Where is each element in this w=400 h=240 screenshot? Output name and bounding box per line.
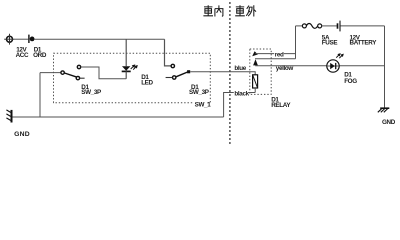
svg-text:RELAY: RELAY (271, 102, 291, 109)
switch S1a (part of D1 SW_3P) (61, 65, 85, 80)
label black (234, 91, 250, 98)
svg-text:SW_3P: SW_3P (81, 89, 101, 96)
label D1 RELAY (271, 97, 291, 110)
label 12V BATTERY (350, 34, 378, 46)
label 車内 (hand-drawn kanji) (203, 5, 223, 16)
svg-text:FUSE: FUSE (322, 40, 338, 47)
label D1 FOG (344, 72, 357, 86)
wire: top rail corner down to switch 2 (165, 39, 171, 66)
label 車外 (hand-drawn kanji) (235, 5, 256, 16)
svg-text:SW_3P: SW_3P (189, 89, 209, 96)
relay common arrow (253, 59, 258, 65)
relay contact arm arrow (252, 51, 258, 56)
wire: coil bottom to black wire (254, 88, 256, 93)
switch S1b (part of D1 SW_3P) (166, 64, 191, 79)
battery 12V (338, 21, 341, 32)
wire: vertical to battery rail (295, 26, 297, 59)
wire: main top rail (35, 38, 165, 40)
svg-text:yellow: yellow (276, 65, 294, 72)
fuse 5A (302, 24, 321, 29)
wire: yellow wire to fog lamp (255, 65, 384, 67)
wire: S1a to LED cathode loop (81, 67, 126, 79)
wire: blue wire switch 2 to relay coil (190, 72, 255, 75)
separator dashed line (cabin/outside) (229, 2, 231, 144)
label red (274, 52, 284, 59)
svg-text:FOG: FOG (344, 78, 357, 85)
svg-text:LED: LED (141, 79, 153, 86)
label D1 ORD (33, 47, 47, 59)
label D1 SW_3P (pole 2) (189, 84, 209, 96)
label D1 LED (141, 74, 153, 86)
wire: feed to switch 1 (40, 72, 61, 74)
svg-text:GND: GND (14, 131, 30, 138)
svg-text:GND: GND (382, 119, 396, 126)
dashed box SW_1 (54, 53, 211, 102)
name SW_1 (194, 101, 212, 109)
fog lamp D1 FOG (327, 60, 339, 72)
svg-text:BATTERY: BATTERY (350, 40, 378, 47)
svg-text:black: black (234, 91, 249, 98)
ground left (6, 110, 11, 123)
wire: LED branch down (125, 39, 127, 66)
wire: battery to right rail (341, 25, 385, 27)
wire: black wire to ground rail (224, 93, 256, 118)
ground right (378, 108, 390, 112)
label D1 SW_3P (pole 1) (81, 84, 101, 96)
label 5A FUSE (322, 34, 338, 46)
svg-text:ACC: ACC (16, 52, 29, 59)
terminal 12V ACC (4, 34, 15, 45)
svg-text:blue: blue (234, 65, 246, 72)
wire terminal to diode (15, 38, 28, 40)
dashed box RELAY (250, 49, 271, 94)
wire: down to ground rail (39, 73, 41, 117)
LED D1 (122, 66, 131, 79)
wire: ground rail (12, 116, 223, 118)
svg-text:SW_1: SW_1 (195, 102, 212, 109)
wire: right rail down to ground (384, 26, 386, 108)
svg-text:ORD: ORD (33, 52, 47, 59)
wire: battery top rail (296, 25, 303, 27)
LED light arrows (131, 65, 137, 70)
diode D1 ORD (29, 35, 35, 43)
label 12V ACC (16, 47, 29, 59)
fog light arrows (336, 54, 343, 58)
svg-text:red: red (275, 52, 284, 59)
relay coil (253, 75, 258, 88)
wire: second contact line (255, 58, 296, 60)
wire: fuse to battery (322, 25, 337, 27)
wire: red contact line (255, 53, 295, 55)
